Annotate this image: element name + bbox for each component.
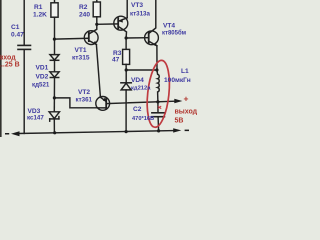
svg-text:47: 47 (112, 57, 120, 64)
svg-text:кт313а: кт313а (130, 11, 150, 18)
svg-text:R2: R2 (79, 4, 88, 11)
svg-text:VT2: VT2 (78, 89, 90, 96)
svg-text:VD4: VD4 (131, 77, 144, 84)
svg-text:C2: C2 (133, 106, 142, 113)
svg-text:VD1: VD1 (36, 65, 49, 72)
svg-text:кт315: кт315 (72, 54, 90, 61)
svg-text:VT1: VT1 (75, 47, 87, 54)
svg-text:VT3: VT3 (131, 2, 143, 9)
svg-text:выход: выход (175, 109, 198, 116)
svg-text:0.47: 0.47 (11, 32, 24, 39)
svg-text:5В: 5В (175, 118, 184, 125)
svg-text:кд521: кд521 (32, 82, 50, 89)
svg-text:100мкГн: 100мкГн (164, 77, 191, 84)
svg-text:кс147: кс147 (27, 115, 44, 122)
svg-text:240: 240 (79, 12, 90, 19)
svg-text:R1: R1 (34, 4, 43, 11)
svg-text:кт805бм: кт805бм (162, 30, 187, 37)
svg-text:L1: L1 (181, 68, 189, 75)
svg-text:...25 В: ...25 В (0, 62, 20, 69)
svg-text:+: + (184, 94, 189, 104)
svg-text:VT4: VT4 (163, 23, 175, 30)
svg-text:вход: вход (0, 55, 16, 62)
svg-text:VD2: VD2 (36, 74, 49, 81)
svg-text:кд212а: кд212а (131, 86, 151, 92)
svg-text:C1: C1 (11, 24, 20, 31)
svg-text:кт361: кт361 (76, 97, 93, 104)
svg-text:470*16В: 470*16В (132, 116, 154, 122)
svg-text:1.2K: 1.2K (33, 12, 47, 19)
